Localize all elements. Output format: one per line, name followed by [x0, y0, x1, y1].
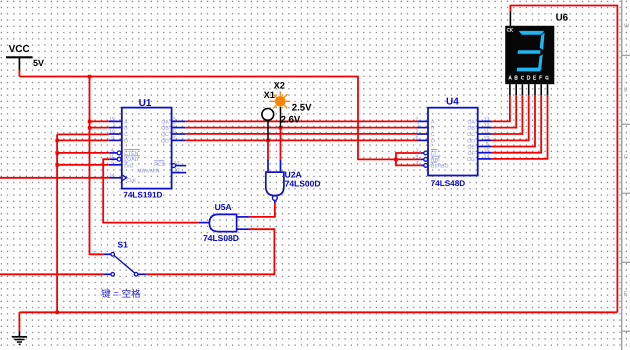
svg-text:RCO: RCO	[154, 162, 166, 168]
U1 overbars	[124, 150, 164, 163]
decoder U4 74LS48D	[416, 97, 492, 189]
wire VCC rail horizontal to U4 drop	[19, 77, 420, 160]
svg-text:OC: OC	[467, 132, 475, 138]
svg-text:10: 10	[109, 129, 115, 135]
wire QD to gate input	[267, 140, 269, 160]
segment A	[519, 31, 544, 35]
wire preset B	[90, 127, 109, 129]
junction A row	[88, 120, 92, 124]
wire OA to display pin A	[491, 95, 510, 121]
svg-text:6: 6	[416, 135, 419, 141]
U1 pin CTEN stub with bubble	[110, 152, 117, 154]
svg-text:15: 15	[109, 116, 115, 122]
svg-text:OF: OF	[468, 151, 475, 157]
wire X2 stub down to QB	[280, 107, 282, 128]
wire S1 to U5A lower input	[146, 229, 274, 274]
svg-text:X2: X2	[274, 80, 285, 90]
wire VCC stub to rail	[18, 69, 20, 76]
junction RBI tie	[394, 158, 398, 162]
U1 pin MAX/MIN stub	[172, 172, 187, 174]
wire CK black stub	[509, 12, 511, 27]
wire CLK from left edge	[0, 177, 110, 179]
U4 pin BI/RBO stub with bubble	[421, 164, 424, 166]
U1 pin QC stub	[172, 133, 186, 135]
U1 pin QB stub	[172, 127, 186, 129]
svg-text:OD: OD	[467, 139, 475, 145]
U4 pin D stub	[417, 139, 428, 141]
segment C	[538, 54, 543, 70]
display U6	[505, 12, 568, 95]
svg-text:QB: QB	[161, 126, 169, 132]
wire X1 stub down to QD	[267, 120, 269, 140]
junction CTEN / gnd	[55, 151, 59, 155]
bottom ground rail	[19, 311, 617, 313]
probe X2	[270, 80, 312, 113]
wire QC net U1 to U4	[185, 133, 417, 135]
wire QB to gate input	[280, 128, 282, 161]
svg-text:14: 14	[109, 173, 115, 179]
wire VCC drop to A,B and S1	[90, 77, 104, 255]
svg-text:7: 7	[416, 116, 419, 122]
svg-text:2: 2	[416, 129, 419, 135]
wire LOAD feedback from U5A output	[103, 159, 199, 222]
svg-text:13: 13	[484, 116, 490, 122]
svg-text:VCC: VCC	[9, 44, 30, 55]
svg-text:11: 11	[484, 129, 489, 135]
svg-text:74LS08D: 74LS08D	[203, 233, 239, 243]
svg-text:74LS191D: 74LS191D	[123, 191, 162, 200]
svg-text:5: 5	[111, 160, 114, 166]
svg-text:4: 4	[416, 160, 419, 166]
svg-text:OA: OA	[467, 120, 475, 126]
svg-text:QD: QD	[161, 139, 169, 145]
U1 pin A stub	[109, 120, 122, 122]
power VCC	[6, 44, 44, 69]
svg-text:S1: S1	[118, 239, 129, 249]
svg-text:3: 3	[416, 148, 419, 154]
U1 pin D/U stub	[109, 164, 122, 166]
svg-text:2: 2	[173, 123, 176, 129]
U1 pin C stub	[109, 133, 122, 135]
svg-text:7: 7	[173, 135, 176, 141]
pane edge	[622, 0, 630, 350]
wire preset A	[90, 120, 109, 122]
U1 pin numbers	[109, 116, 180, 178]
wire OB to display pin B	[491, 95, 516, 128]
wire OD to display pin D	[491, 95, 529, 140]
junction D row / gnd	[55, 139, 59, 143]
U1 pin D stub	[109, 139, 122, 141]
wire S1 left throw to canvas edge	[0, 273, 104, 275]
ground	[12, 331, 27, 344]
wire preset C	[57, 133, 109, 135]
svg-text:C: C	[124, 132, 128, 138]
wire OG to display pin G	[491, 95, 547, 159]
wire OF to display pin F	[491, 95, 541, 153]
svg-text:OG: OG	[467, 157, 475, 163]
junction QB / X2 drop	[279, 126, 283, 129]
svg-text:A: A	[431, 120, 435, 126]
U4 overbars	[431, 150, 441, 163]
svg-text:键 = 空格: 键 = 空格	[101, 288, 141, 300]
svg-text:D/U: D/U	[124, 163, 133, 169]
svg-text:9: 9	[111, 135, 114, 141]
AND gate U5A	[199, 202, 249, 243]
junction VCC rail / left drop	[88, 75, 92, 79]
svg-text:3: 3	[173, 116, 176, 122]
svg-text:D: D	[124, 139, 128, 145]
svg-text:BI/RBO: BI/RBO	[431, 164, 449, 170]
svg-text:12: 12	[484, 123, 490, 129]
U4 internal labels	[431, 120, 475, 170]
segment D	[517, 68, 541, 72]
svg-text:14: 14	[484, 154, 490, 160]
junction gnd rail	[55, 311, 59, 315]
svg-text:E: E	[624, 291, 628, 298]
switch S1	[101, 239, 146, 299]
U4 pin numbers	[416, 116, 490, 166]
svg-text:CLK: CLK	[126, 178, 137, 184]
svg-text:5V: 5V	[33, 58, 44, 68]
U1 pin QD stub	[172, 139, 186, 141]
segment B	[540, 33, 545, 50]
wire LT tie	[396, 153, 421, 165]
U1 pin RCO stub with bubble	[172, 164, 176, 168]
wire preset D	[57, 139, 109, 141]
wire OC to display pin C	[491, 95, 522, 134]
U4 pin A stub	[417, 120, 428, 122]
svg-text:15: 15	[484, 148, 490, 154]
display pin letters	[509, 76, 548, 79]
svg-text:D: D	[431, 139, 435, 145]
U1 pin QA stub	[172, 120, 186, 122]
U4 pin C stub	[417, 133, 428, 135]
wire top loop U6 CK to right rail	[510, 6, 617, 313]
U4 pin LT stub with bubble	[421, 152, 424, 154]
U1 pin LOAD stub with bubble	[110, 158, 117, 160]
wire ground net vertical	[56, 134, 58, 312]
U4 pin RBI stub with bubble	[421, 158, 424, 160]
counter U1 74LS191D	[109, 98, 187, 200]
wire OE to display pin E	[491, 95, 535, 147]
svg-text:6: 6	[173, 129, 176, 135]
svg-text:W: W	[624, 23, 630, 30]
wire D/U row	[57, 164, 109, 166]
wire rail to ground symbol	[18, 312, 20, 331]
svg-text:12: 12	[174, 168, 180, 174]
svg-text:10: 10	[484, 135, 490, 141]
wire QD net U1 to U4	[185, 139, 417, 141]
svg-text:MAX/MIN: MAX/MIN	[137, 169, 159, 175]
svg-text:2.5V: 2.5V	[292, 102, 312, 113]
junction D/U / gnd	[55, 163, 59, 167]
NAND gate U2A	[266, 160, 321, 203]
svg-text:74LS00D: 74LS00D	[285, 179, 321, 189]
U4 output stubs OA-OG	[478, 121, 492, 158]
svg-text:OE: OE	[467, 145, 475, 151]
U4 pin B stub	[417, 127, 428, 129]
svg-text:C: C	[624, 154, 629, 161]
svg-text:13: 13	[174, 161, 180, 167]
svg-text:4: 4	[111, 148, 114, 154]
svg-text:U4: U4	[446, 97, 459, 108]
svg-text:B: B	[124, 126, 128, 132]
wire CTEN	[57, 152, 110, 154]
svg-text:QA: QA	[161, 120, 169, 126]
svg-text:1: 1	[113, 123, 116, 129]
wire U2A output to U5A input	[249, 203, 275, 217]
svg-text:A: A	[124, 120, 128, 126]
svg-text:74LS48D: 74LS48D	[431, 179, 466, 188]
svg-text:U5A: U5A	[215, 202, 232, 212]
svg-text:C: C	[431, 132, 435, 138]
wire QA net U1 to U4	[185, 120, 417, 122]
svg-text:2.6V: 2.6V	[281, 115, 301, 126]
svg-text:B: B	[431, 126, 435, 132]
junction B row	[88, 126, 92, 129]
probe X1	[262, 90, 301, 126]
display wires	[491, 95, 547, 159]
U1 internal labels	[124, 120, 169, 184]
display pin stubs	[510, 84, 548, 95]
svg-text:U6: U6	[556, 12, 569, 23]
junction QD / X1 drop	[266, 139, 270, 143]
U1 pin CLK stub with clock triangle	[110, 177, 122, 179]
svg-text:9: 9	[486, 142, 489, 148]
svg-text:1: 1	[417, 123, 420, 129]
wire QB net U1 to U4	[185, 127, 417, 129]
U1 pin B stub	[109, 127, 122, 129]
svg-text:OB: OB	[467, 126, 475, 132]
svg-text:QC: QC	[161, 132, 169, 138]
segment G	[518, 50, 541, 54]
svg-text:U1: U1	[139, 98, 152, 109]
